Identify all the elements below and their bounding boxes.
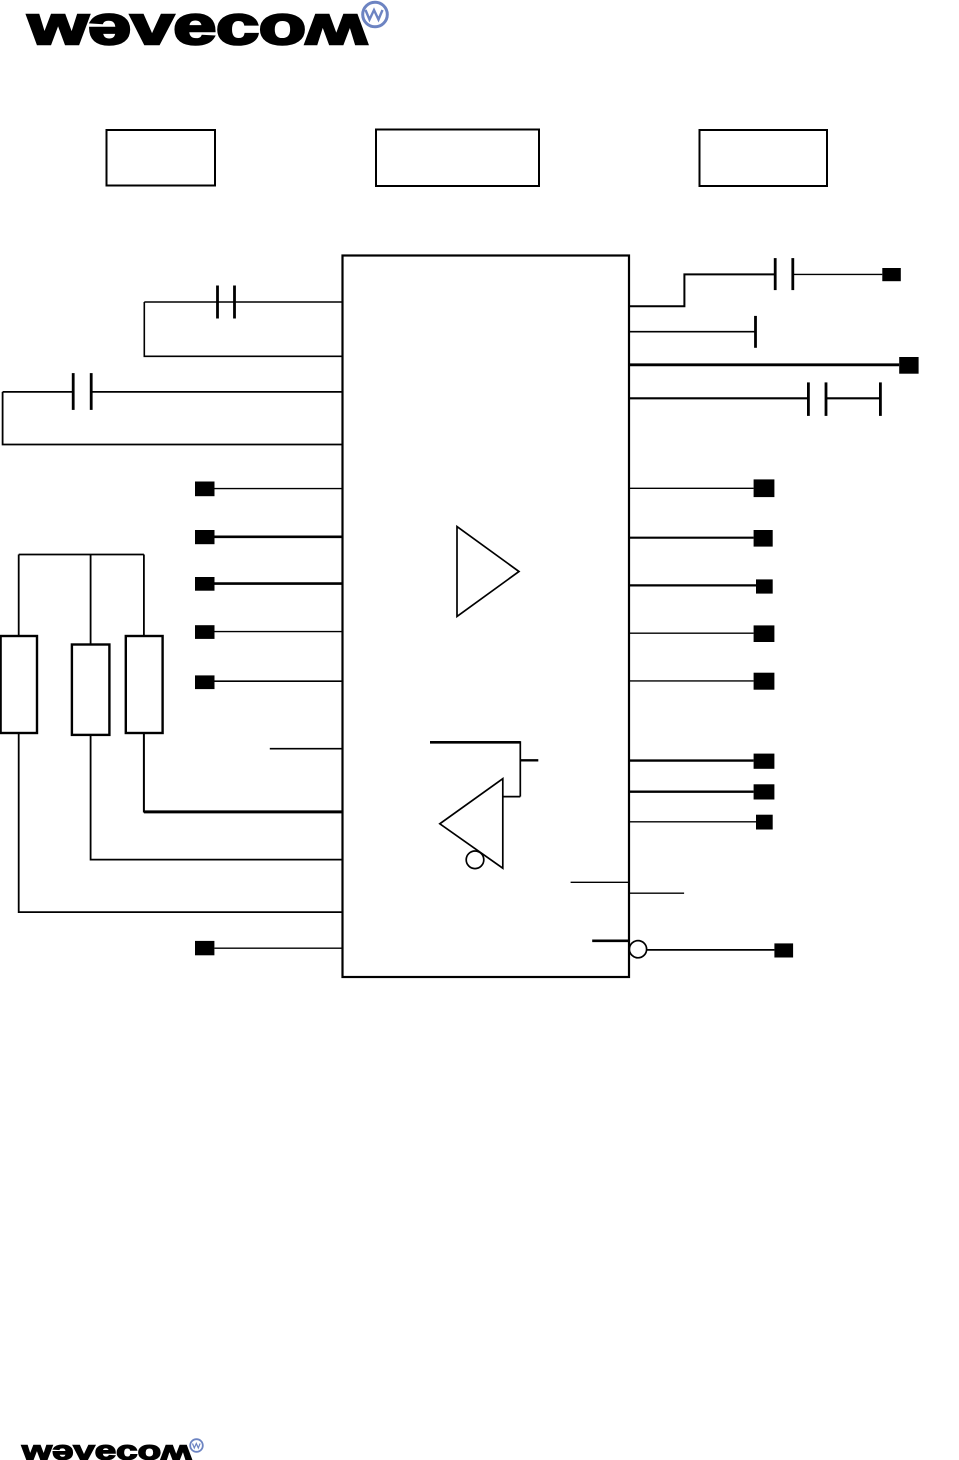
left pin 4 pad <box>195 625 215 639</box>
left stub wire y748 <box>270 748 343 750</box>
right pin 3 wire <box>629 584 756 586</box>
resistor R2 top lead <box>90 555 92 645</box>
wavecom logo top blue icon <box>363 2 388 27</box>
resistor R1 bottom lead <box>19 733 343 912</box>
right pin 8 wire <box>629 821 756 823</box>
left pin 5 wire <box>215 680 343 682</box>
right pin 4 wire <box>629 632 754 634</box>
bottom right wire <box>647 949 775 951</box>
resistor R1 top lead <box>18 555 20 637</box>
right pin 1 wire <box>629 487 754 489</box>
bottom left pin pad <box>195 941 214 955</box>
IC U1 main block <box>343 256 630 978</box>
inverted output bubble on IC edge <box>629 941 646 958</box>
left pin 3 wire <box>215 582 343 585</box>
resistor R3 bottom lead <box>143 733 145 813</box>
right pin C wire (thick) <box>629 363 899 366</box>
svg-text:wəveco: wəveco <box>27 0 306 56</box>
inverter gate inside IC <box>440 779 503 869</box>
right pin 6 pad <box>754 754 775 769</box>
pin B terminal plate <box>754 316 757 348</box>
right pin 4 pad <box>754 625 775 642</box>
buffer amplifier inside IC <box>457 527 519 617</box>
thick stub inside IC bottom right <box>592 939 629 942</box>
capacitor C1 plates <box>216 286 219 319</box>
inverter bubble <box>466 851 484 869</box>
capacitor C4 plates <box>807 382 810 416</box>
stub right of feed <box>520 759 538 761</box>
right pin 1 pad <box>754 479 775 497</box>
svg-text:w: w <box>305 3 367 64</box>
bottom left pin wire <box>214 947 342 949</box>
header box 1 <box>107 130 216 186</box>
right pin 7 wire <box>629 791 754 793</box>
header box 2 <box>376 130 539 187</box>
R3 thick horizontal segment <box>144 810 343 813</box>
right pin 2 wire <box>629 537 754 539</box>
resistor R2 <box>72 645 110 735</box>
right stub wire y893 <box>629 892 684 894</box>
right pin D wire <box>629 397 808 399</box>
capacitor C2 loop top wire <box>3 391 74 393</box>
wavecom logo bottom wordmark <box>21 1436 192 1460</box>
resistor R3 <box>126 636 163 733</box>
header box 3 <box>700 130 828 186</box>
right pin 2 pad <box>754 530 773 547</box>
left pin 4 wire <box>215 631 343 633</box>
C4 to plate wire <box>826 397 880 399</box>
wire inside IC right y882 <box>571 881 629 883</box>
right pin A pad <box>882 268 901 281</box>
left pin 1 wire <box>215 488 343 490</box>
wavecom logo bottom blue icon <box>190 1439 203 1452</box>
inverter input feed wire (thick) <box>430 741 520 744</box>
right pin A wire from IC <box>629 274 775 306</box>
C3 to pad wire <box>793 273 883 275</box>
capacitor C2 plates <box>72 373 75 410</box>
C1 top wire left segment <box>144 301 217 303</box>
right pin 5 wire <box>629 680 754 682</box>
right pin C pad <box>899 357 918 374</box>
svg-text:w: w <box>161 1439 192 1460</box>
svg-text:wəveco: wəveco <box>21 1436 161 1460</box>
wire vertical from feed <box>519 741 521 796</box>
right pin 3 pad <box>756 579 773 593</box>
trimmer plate <box>879 382 882 416</box>
resistor R1 <box>1 636 37 733</box>
left pin 1 pad <box>195 482 215 497</box>
left pin 2 pad <box>195 530 215 544</box>
wire into inverter <box>503 796 521 798</box>
resistor bus top wire <box>19 554 144 556</box>
left pin 5 pad <box>195 675 215 689</box>
bottom right pad <box>774 943 793 957</box>
right pin 6 wire <box>629 759 754 761</box>
C2 loop left and bottom wires <box>3 392 343 445</box>
wavecom logo top wordmark <box>27 0 368 64</box>
resistor R2 bottom lead <box>91 735 343 860</box>
right pin 8 pad <box>756 815 773 830</box>
resistor R3 top lead <box>143 555 145 637</box>
C1 loop left and bottom wires <box>144 302 342 356</box>
right pin B wire <box>629 331 756 333</box>
capacitor C3 plates <box>774 258 777 290</box>
capacitor C1 loop top wire <box>218 301 343 303</box>
left pin 3 pad <box>195 577 215 591</box>
right pin 5 pad <box>754 673 775 690</box>
right pin 7 pad <box>754 784 775 799</box>
left pin 2 wire <box>215 535 343 538</box>
